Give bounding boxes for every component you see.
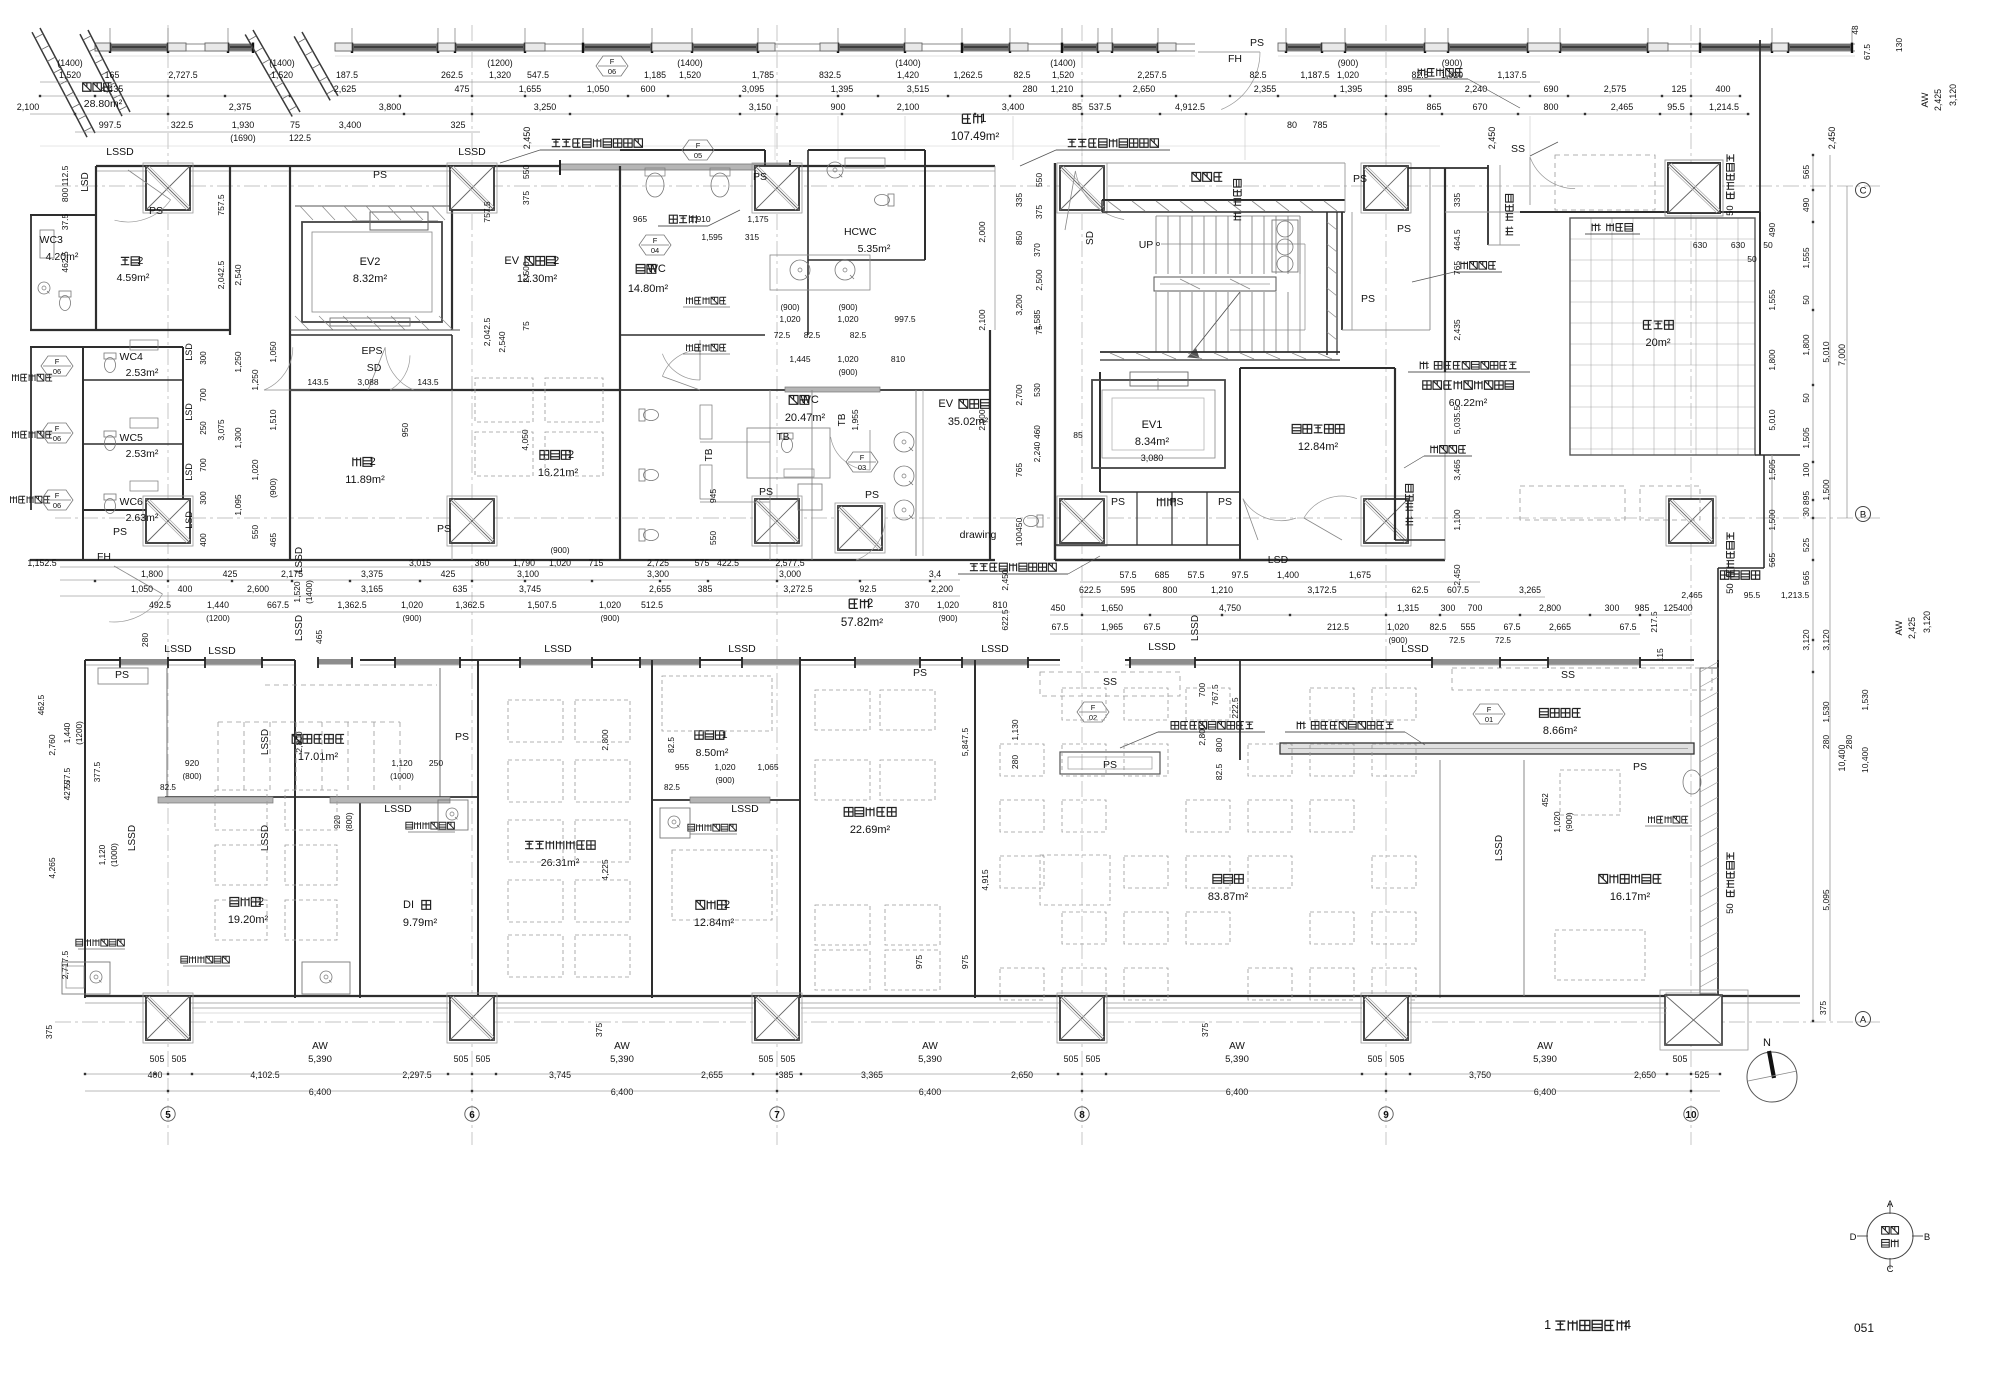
svg-text:3,120: 3,120 [1801,629,1811,651]
svg-text:6,400: 6,400 [919,1087,942,1097]
svg-text:1: 1 [980,113,986,125]
svg-text:997.5: 997.5 [894,314,916,324]
svg-text:165: 165 [105,70,120,80]
svg-text:1: 1 [1544,1318,1551,1332]
label ライニング HCWC [1418,69,1462,77]
svg-text:1,020: 1,020 [401,600,423,610]
svg-text:6: 6 [469,1110,475,1121]
svg-text:3,800: 3,800 [379,102,402,112]
svg-text:600: 600 [640,84,655,94]
svg-text:3,465: 3,465 [1452,459,1462,481]
svg-text:(800): (800) [182,772,201,781]
svg-text:2.53m²: 2.53m² [126,367,159,379]
svg-text:20.47m²: 20.47m² [785,412,826,424]
svg-text:4.59m²: 4.59m² [117,272,150,284]
svg-text:375: 375 [521,191,531,205]
svg-text:AW: AW [922,1041,938,1052]
svg-text:370: 370 [1033,243,1042,257]
svg-text:1,250: 1,250 [233,351,243,373]
svg-text:400: 400 [199,533,208,547]
svg-text:2,465: 2,465 [1681,590,1703,600]
svg-text:85: 85 [1073,430,1083,440]
男子WC fixtures [646,173,664,197]
svg-text:WC4: WC4 [120,351,143,363]
svg-text:460: 460 [1033,425,1042,439]
svg-text:2,100: 2,100 [977,309,987,331]
label 壁タイル ent [1404,484,1415,524]
svg-text:PS: PS [115,669,129,681]
WC3 fixtures [59,291,71,311]
svg-text:11.89m²: 11.89m² [345,474,385,486]
svg-text:850: 850 [1014,231,1024,245]
svg-text:1,595: 1,595 [701,232,723,242]
svg-text:PS: PS [913,667,927,679]
svg-text:2,425: 2,425 [1907,617,1917,639]
svg-text:3,120: 3,120 [1821,629,1831,651]
label サーバー室 [1292,425,1344,434]
furniture misc [1040,855,1110,905]
svg-text:EV1: EV1 [1142,419,1163,431]
svg-text:800: 800 [1163,585,1178,595]
svg-text:130: 130 [1894,38,1904,52]
svg-text:3,745: 3,745 [519,584,541,594]
svg-text:WC: WC [648,263,666,275]
svg-text:3,100: 3,100 [517,569,539,579]
stair block walls [1054,163,1056,560]
PS column 女子WC [835,503,885,553]
label 診療情報管理室 [525,841,595,849]
svg-text:1,400: 1,400 [1277,570,1299,580]
label 地域連携室 [844,808,896,817]
svg-text:(900): (900) [938,614,957,623]
svg-text:2: 2 [137,255,143,267]
EVホール basins [894,432,914,452]
svg-text:2,240: 2,240 [1033,441,1042,462]
svg-text:607.5: 607.5 [1447,585,1469,595]
svg-text:2,450: 2,450 [1000,569,1010,591]
grid lines [167,25,169,1145]
svg-text:16.17m²: 16.17m² [1610,891,1651,903]
furniture 相談室2 [475,378,533,422]
svg-text:975: 975 [914,955,924,969]
svg-text:SS: SS [1103,676,1117,688]
svg-text:1,130: 1,130 [1010,719,1020,741]
room label 中待合 upper-left [83,83,112,91]
svg-text:WC3: WC3 [40,234,63,246]
svg-text:5,035.5: 5,035.5 [1452,406,1462,435]
svg-text:377.5: 377.5 [93,761,102,782]
label 上部防煙スクリーン top2 [1068,139,1159,147]
svg-text:2,355: 2,355 [1254,84,1277,94]
svg-text:2,725: 2,725 [647,558,669,568]
label ライニング left2 [12,431,52,438]
svg-text:280: 280 [1010,755,1020,769]
svg-text:LSSD: LSSD [728,643,756,655]
svg-text:1,020: 1,020 [1337,70,1359,80]
columns row C [143,163,193,213]
svg-text:492.5: 492.5 [149,600,171,610]
svg-text:12.84m²: 12.84m² [694,917,735,929]
svg-text:2,650: 2,650 [1011,1070,1033,1080]
svg-text:800: 800 [1543,102,1558,112]
svg-text:1,965: 1,965 [1101,622,1123,632]
svg-text::: : [1232,211,1243,214]
svg-text:1,020: 1,020 [937,600,959,610]
HCWC fixtures [875,194,895,206]
svg-text:2,760: 2,760 [47,734,57,756]
svg-text:475: 475 [454,84,469,94]
svg-text:425: 425 [441,569,456,579]
svg-text:F: F [696,141,701,150]
svg-text:50: 50 [1747,254,1757,264]
svg-text:4,915: 4,915 [980,869,990,891]
svg-text:715: 715 [589,558,604,568]
entry lower walls [1763,455,1765,568]
lower block walls [85,659,295,661]
svg-text:6,400: 6,400 [309,1087,332,1097]
svg-text:2,800: 2,800 [1197,724,1207,746]
svg-text:1,440: 1,440 [63,722,72,743]
svg-text:1,187.5: 1,187.5 [1300,70,1329,80]
svg-text:(1400): (1400) [677,58,702,68]
svg-text:LSD: LSD [184,463,194,481]
svg-text:WC6: WC6 [120,496,143,508]
svg-text:505: 505 [1064,1054,1079,1064]
svg-text:SD: SD [1085,231,1096,245]
svg-text:1,020: 1,020 [250,459,260,481]
svg-text:122.5: 122.5 [289,133,311,143]
svg-text:(1400): (1400) [305,580,314,604]
label ダイノックシート貼 [1171,722,1253,730]
svg-text:800: 800 [1214,738,1224,752]
svg-text:2,800: 2,800 [1539,603,1561,613]
svg-text:7: 7 [774,1110,780,1121]
label 倉庫2 [353,456,376,468]
svg-text:1,020: 1,020 [1552,811,1562,833]
svg-text:02: 02 [1089,713,1097,722]
svg-text:82.5: 82.5 [804,330,821,340]
columns row B [143,496,193,546]
svg-text:375: 375 [1818,1001,1828,1015]
svg-text:4: 4 [1624,1318,1631,1332]
svg-text:82.5: 82.5 [1411,70,1428,80]
svg-text:2,800: 2,800 [600,729,610,751]
svg-text:505: 505 [1086,1054,1101,1064]
svg-text:1,362.5: 1,362.5 [337,600,366,610]
svg-text:67.5: 67.5 [1143,622,1160,632]
svg-text:2,665: 2,665 [1549,622,1571,632]
svg-text:1,555: 1,555 [1767,289,1777,311]
svg-text:2,625: 2,625 [334,84,357,94]
svg-text:5,390: 5,390 [610,1054,634,1065]
svg-text:3,165: 3,165 [361,584,383,594]
svg-text:490: 490 [1767,223,1777,237]
svg-text:6,400: 6,400 [1226,1087,1249,1097]
svg-text:565: 565 [1767,553,1777,567]
svg-text:37.5: 37.5 [60,213,70,230]
svg-text:F: F [55,424,60,433]
svg-text:465: 465 [314,630,324,644]
svg-text:PS: PS [1353,173,1367,185]
svg-text:5,390: 5,390 [308,1054,332,1065]
svg-text:AW: AW [1537,1041,1553,1052]
svg-text:1,152.5: 1,152.5 [27,558,56,568]
svg-text:5,390: 5,390 [1533,1054,1557,1065]
svg-text:100450: 100450 [1014,518,1024,547]
svg-text:2: 2 [370,456,376,468]
svg-text:1,020: 1,020 [599,600,621,610]
svg-text:530: 530 [1033,383,1042,397]
svg-text:10,400: 10,400 [1860,747,1870,773]
svg-text:82.5: 82.5 [1013,70,1030,80]
svg-text:985: 985 [1635,603,1650,613]
svg-text:2,600: 2,600 [247,584,269,594]
svg-text:400: 400 [1715,84,1730,94]
svg-text:LSD: LSD [184,511,194,529]
svg-text:315: 315 [745,232,759,242]
svg-text:2,042.5: 2,042.5 [482,318,492,347]
svg-text:550: 550 [521,165,531,179]
svg-text:1,520: 1,520 [1052,70,1074,80]
svg-text:2,435: 2,435 [1452,319,1462,341]
svg-text:50: 50 [1801,295,1811,305]
svg-text:95.5: 95.5 [1667,102,1685,112]
svg-text:4,102.5: 4,102.5 [250,1070,279,1080]
svg-text:LSSD: LSSD [1148,641,1176,653]
svg-text:(900): (900) [715,776,734,785]
svg-text:(900): (900) [1338,58,1359,68]
svg-text:895: 895 [1397,84,1412,94]
svg-text:2,450: 2,450 [522,127,532,150]
svg-text:19.20m²: 19.20m² [228,914,269,926]
svg-text:425: 425 [223,569,238,579]
svg-text:B: B [1860,510,1866,521]
label 中待合 stair [1192,173,1222,182]
svg-text:(900): (900) [1442,58,1463,68]
svg-text:1,395: 1,395 [1340,84,1363,94]
svg-text:5,010: 5,010 [1821,341,1831,363]
label ライニング left3 [10,496,50,503]
svg-text:50: 50 [1725,205,1736,216]
label 間接照明1 [1461,262,1496,270]
svg-text:2: 2 [568,449,574,461]
svg-text:(900): (900) [550,546,569,555]
svg-text:550: 550 [708,531,718,545]
hex F01 [1473,704,1505,724]
svg-text:LSD: LSD [80,172,91,191]
svg-text:SD: SD [367,362,382,374]
svg-text:1,955: 1,955 [850,409,860,431]
svg-text:1,300: 1,300 [233,427,243,449]
svg-text:95.5: 95.5 [1744,590,1761,600]
svg-text:550: 550 [250,525,260,539]
svg-text:04: 04 [651,246,659,255]
svg-text::: : [1304,720,1307,731]
top exterior wall with windows [95,43,253,45]
svg-text:280: 280 [1022,84,1037,94]
svg-text:450: 450 [1051,603,1066,613]
svg-text:LSSD: LSSD [294,547,305,573]
svg-text:1,213.5: 1,213.5 [1781,590,1810,600]
svg-text:3,172.5: 3,172.5 [1307,585,1336,595]
svg-text:06: 06 [53,501,61,510]
svg-text:667.5: 667.5 [267,600,289,610]
label 50角タイル貼 low [1725,852,1736,914]
svg-text:700: 700 [1468,603,1483,613]
svg-text:67.5: 67.5 [1863,44,1872,60]
svg-text:01: 01 [1485,715,1493,724]
svg-text:1,020: 1,020 [1387,622,1409,632]
svg-text:85: 85 [1072,102,1082,112]
svg-text:PS: PS [113,526,127,538]
svg-text:(900): (900) [402,614,421,623]
svg-text:1,315: 1,315 [1397,603,1419,613]
svg-text:WC: WC [801,394,819,406]
label 事務室2 [230,896,264,908]
label ライニング left1 [12,374,52,381]
door arcs upper [128,170,171,200]
svg-text:125400: 125400 [1663,603,1692,613]
svg-text:LSSD: LSSD [1494,835,1505,861]
svg-text:2,042.5: 2,042.5 [216,261,226,290]
svg-text:57.82m²: 57.82m² [841,617,883,629]
hex F06 top [596,56,628,76]
label 休憩室・当直 [1599,875,1662,884]
svg-text:SS: SS [1511,143,1525,155]
svg-text:82.5: 82.5 [1429,622,1446,632]
svg-text:832.5: 832.5 [819,70,841,80]
svg-text:1,585: 1,585 [1033,309,1042,330]
svg-text:F: F [610,57,615,66]
svg-text:375: 375 [1034,205,1044,219]
svg-text:464.5: 464.5 [1452,229,1462,251]
label DI室 [403,899,431,911]
grid bubbles [161,1107,175,1121]
svg-text:630: 630 [1693,240,1707,250]
svg-text:5,390: 5,390 [1225,1054,1249,1065]
svg-text:FH: FH [97,551,111,563]
svg-text:80: 80 [1287,120,1297,130]
svg-text:1,395: 1,395 [831,84,854,94]
svg-text:PS: PS [455,731,469,743]
svg-text:1,210: 1,210 [1051,84,1074,94]
svg-text:1,520: 1,520 [271,70,293,80]
svg-text:8.66m²: 8.66m² [1543,725,1578,737]
label ライニング small1 [686,297,726,304]
label 受付会計 [1540,709,1581,718]
cart stripes カート置場 [217,722,219,792]
svg-text:1,530: 1,530 [1821,701,1831,723]
svg-text:2,655: 2,655 [649,584,671,594]
svg-text:LSD: LSD [184,403,194,421]
label 相談室1 [695,729,728,741]
svg-text:143.5: 143.5 [307,377,329,387]
svg-text:3,300: 3,300 [647,569,669,579]
furniture 医事室 [1000,744,1044,776]
label 廊下1 [962,113,986,125]
svg-text:505: 505 [476,1054,491,1064]
svg-text:67.5: 67.5 [1051,622,1068,632]
svg-text:765: 765 [1014,463,1024,477]
svg-text:2,450: 2,450 [1452,564,1462,586]
label ミニキッチン4 [688,824,737,831]
label 50角タイル貼 top [1725,154,1736,216]
dim lines top [40,81,1540,83]
svg-text:12.84m²: 12.84m² [1298,441,1339,453]
svg-text:(1200): (1200) [487,58,512,68]
svg-text:622.5: 622.5 [1000,609,1010,631]
svg-text:2: 2 [867,598,873,610]
title 1階平面詳細図4 [1544,1318,1631,1332]
svg-text:2,717.5: 2,717.5 [60,951,70,980]
svg-text:5,010: 5,010 [1767,409,1777,431]
svg-text:(800): (800) [345,812,354,831]
svg-text:630: 630 [1731,240,1745,250]
svg-text:57.5: 57.5 [1119,570,1136,580]
女子WC cell fixtures [781,433,793,453]
svg-text:PS: PS [1361,293,1375,305]
svg-text:LSSD: LSSD [260,729,271,755]
svg-text:051: 051 [1854,1321,1874,1335]
svg-text:EV: EV [504,255,519,267]
svg-text:1,320: 1,320 [489,70,511,80]
svg-text:50: 50 [1725,903,1736,914]
svg-text:8: 8 [1079,1110,1085,1121]
svg-text:6,400: 6,400 [611,1087,634,1097]
svg-text:AW: AW [614,1041,630,1052]
svg-text:250: 250 [199,421,208,435]
hex F06 wc6 [41,490,73,510]
svg-text:LSSD: LSSD [208,645,236,657]
label 相談室2 [540,449,574,461]
svg-text:drawing: drawing [960,529,997,541]
svg-text:30: 30 [1801,507,1811,517]
svg-text:5,847.5: 5,847.5 [960,728,970,757]
svg-text:325: 325 [450,120,465,130]
svg-text:26.31m²: 26.31m² [541,857,580,869]
svg-text:670: 670 [1472,102,1487,112]
svg-text:1,520: 1,520 [292,581,302,603]
svg-text:LSSD: LSSD [1190,615,1201,641]
svg-text:10,400: 10,400 [1837,744,1847,771]
svg-text:(1400): (1400) [1050,58,1075,68]
svg-text:57.5: 57.5 [1187,570,1204,580]
svg-text:1,510: 1,510 [268,409,278,431]
svg-text:1,800: 1,800 [1801,334,1811,356]
svg-text:810: 810 [993,600,1008,610]
svg-text::: : [1404,516,1415,519]
svg-text::: : [1504,226,1515,229]
svg-text:800: 800 [60,188,70,202]
svg-text:1,930: 1,930 [232,120,255,130]
svg-text:(900): (900) [600,614,619,623]
svg-text:1,790: 1,790 [513,558,535,568]
svg-text:920: 920 [185,758,199,768]
svg-text:690: 690 [1543,84,1558,94]
svg-text:F: F [55,491,60,500]
svg-text:322.5: 322.5 [171,120,194,130]
upper block walls [96,165,560,167]
svg-text:2,240: 2,240 [1465,84,1488,94]
svg-text:1,050: 1,050 [587,84,610,94]
svg-text:1,675: 1,675 [1349,570,1371,580]
svg-text:3,745: 3,745 [549,1070,571,1080]
svg-text:505: 505 [1390,1054,1405,1064]
column C10 [1665,160,1723,216]
svg-text:635: 635 [453,584,468,594]
svg-text:300: 300 [199,491,208,505]
label WC4 [120,351,143,363]
